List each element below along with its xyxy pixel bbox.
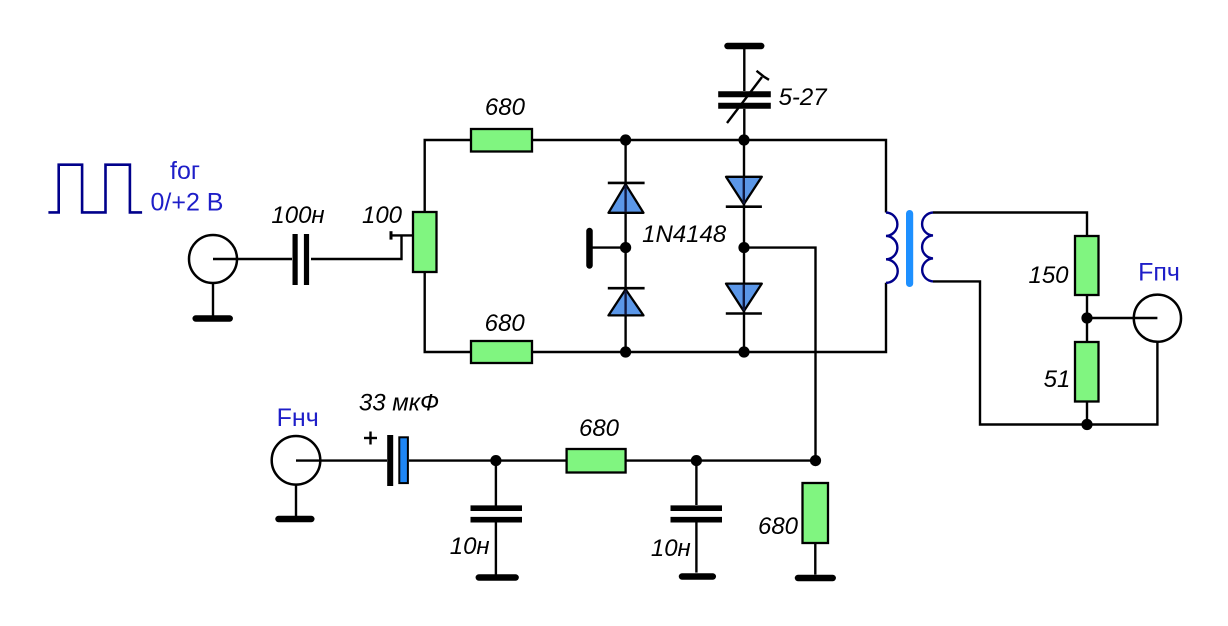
- svg-text:680: 680: [485, 310, 526, 337]
- svg-text:680: 680: [758, 513, 799, 540]
- svg-text:10н: 10н: [651, 535, 691, 562]
- svg-text:680: 680: [485, 94, 526, 121]
- svg-text:51: 51: [1044, 366, 1071, 393]
- svg-text:0/+2 В: 0/+2 В: [151, 189, 224, 217]
- svg-text:Fнч: Fнч: [277, 404, 319, 432]
- svg-text:100н: 100н: [271, 202, 324, 229]
- svg-text:fог: fог: [170, 157, 200, 185]
- svg-text:33 мкФ: 33 мкФ: [359, 390, 439, 417]
- svg-text:150: 150: [1028, 262, 1069, 289]
- svg-text:100: 100: [362, 202, 403, 229]
- svg-text:1N4148: 1N4148: [642, 221, 727, 248]
- svg-text:680: 680: [579, 415, 620, 442]
- svg-text:10н: 10н: [450, 533, 490, 560]
- svg-text:5-27: 5-27: [779, 84, 829, 111]
- svg-text:Fпч: Fпч: [1138, 259, 1180, 287]
